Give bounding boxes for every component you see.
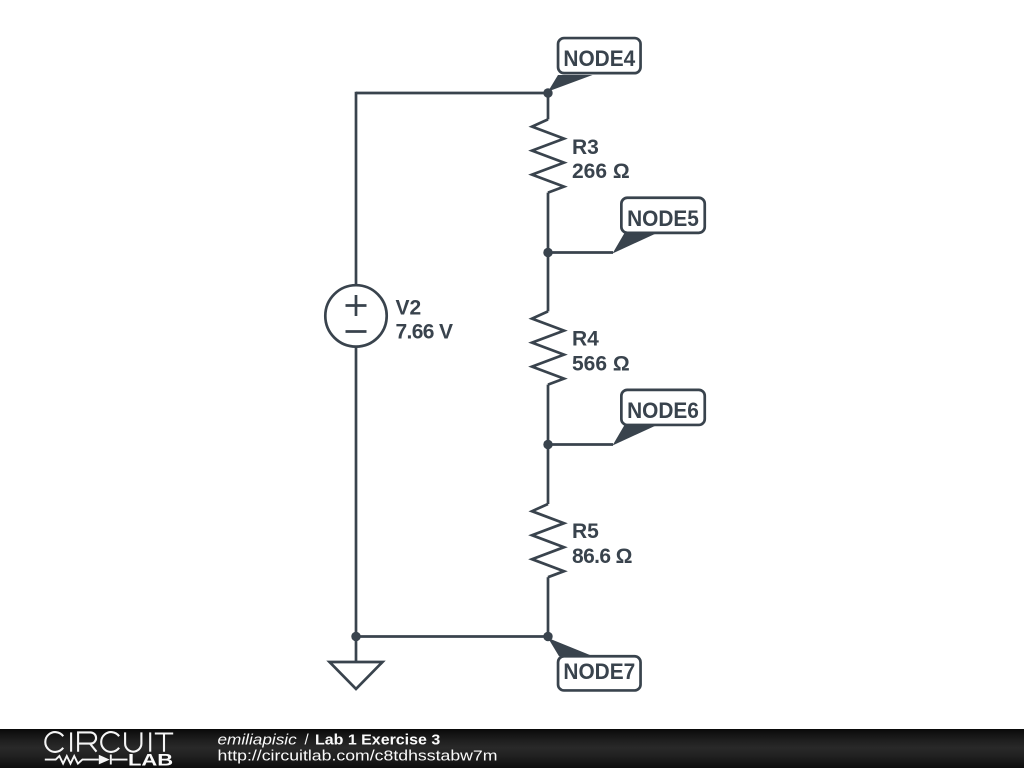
svg-text:R3: R3 — [572, 136, 599, 159]
logo diode triangle — [99, 755, 110, 765]
node flag NODE4 — [548, 38, 641, 91]
resistor R4 — [532, 311, 564, 384]
wire: top horizontal from V2 to NODE4 junction — [356, 92, 548, 95]
wire: R3 to NODE5 junction — [547, 193, 550, 253]
junction node at NODE6 — [543, 440, 552, 449]
svg-text:emiliapisic: emiliapisic — [218, 732, 298, 749]
footer bar — [0, 729, 1024, 768]
svg-text:7.66 V: 7.66 V — [396, 321, 454, 344]
wire: NODE6 junction to R5 — [547, 445, 550, 505]
svg-text:V2: V2 — [396, 296, 422, 319]
junction node at NODE4 — [543, 88, 552, 97]
logo letter I — [149, 732, 151, 751]
resistor R3 — [532, 119, 564, 192]
logo letter C — [101, 732, 119, 752]
voltage source V2 minus sign — [346, 330, 367, 333]
svg-text:/: / — [305, 732, 310, 749]
wire: NODE5 junction to R4 — [547, 253, 550, 312]
svg-text:NODE7: NODE7 — [563, 659, 635, 684]
CircuitLab logo — [0, 729, 200, 768]
voltage source V2 plus sign — [346, 295, 367, 316]
wire: left vertical below V2 — [355, 346, 358, 637]
junction node at ground — [351, 632, 360, 641]
svg-text:86.6 Ω: 86.6 Ω — [572, 545, 633, 568]
voltage source V2 circle — [325, 285, 386, 346]
node flag NODE6 — [548, 390, 705, 446]
svg-text:Lab 1 Exercise 3: Lab 1 Exercise 3 — [315, 732, 440, 749]
svg-text:NODE5: NODE5 — [627, 206, 699, 231]
svg-text:NODE6: NODE6 — [627, 398, 699, 423]
svg-text:http://circuitlab.com/c8tdhsst: http://circuitlab.com/c8tdhsstabw7m — [218, 747, 498, 764]
logo letter T — [155, 734, 173, 752]
junction node at NODE7 — [543, 632, 552, 641]
logo diode flourish — [111, 755, 128, 765]
logo letter U — [125, 732, 141, 751]
svg-text:R5: R5 — [572, 520, 599, 543]
wire: left vertical above V2 — [355, 92, 358, 286]
junction node at NODE5 — [543, 248, 552, 257]
logo letter C — [45, 732, 63, 752]
logo LAB text — [128, 752, 173, 768]
svg-text:R4: R4 — [572, 328, 599, 351]
node flag NODE7 — [548, 638, 641, 690]
footer text — [0, 729, 1024, 768]
wire: bottom horizontal from ground node to NODE7 junction — [356, 635, 548, 638]
logo letter R — [78, 732, 96, 751]
ground stub wire — [355, 637, 358, 663]
logo letter I — [70, 732, 72, 751]
logo resistor flourish — [45, 756, 99, 764]
svg-text:NODE4: NODE4 — [563, 46, 636, 71]
resistor R5 — [532, 504, 564, 577]
wire: right branch segment NODE4 to R3 — [547, 93, 550, 119]
svg-text:566 Ω: 566 Ω — [572, 352, 630, 375]
ground symbol triangle — [330, 662, 383, 689]
wire: R4 to NODE6 junction — [547, 385, 550, 445]
wire: R5 to NODE7 junction — [547, 577, 550, 636]
node flag NODE5 — [548, 198, 705, 254]
svg-text:266 Ω: 266 Ω — [572, 160, 630, 183]
